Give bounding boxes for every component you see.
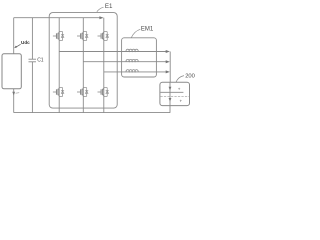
wire: phase leg A vertical (58, 18, 60, 113)
current arrow on positive bus (99, 16, 103, 19)
plate upper (160, 91, 183, 93)
winding LB (126, 59, 138, 61)
wire: negative bus (bottom) (14, 112, 171, 114)
motor enclosure EM1 (122, 38, 157, 77)
svg-text:+: + (180, 99, 183, 104)
wire: source bottom to negative bus (13, 89, 15, 113)
transistor Q1 (top leg A) (53, 32, 64, 41)
leader to label E1 (97, 7, 104, 12)
battery box 200 (160, 82, 190, 105)
wire: phase B output (83, 61, 166, 63)
transistor Q3 (top leg C) (98, 32, 109, 41)
svg-text:E1: E1 (105, 3, 113, 10)
transistor Q2 (top leg B) (77, 32, 88, 41)
svg-text:200: 200 (185, 73, 195, 79)
wire: capacitor branch bottom (31, 62, 33, 113)
inverter enclosure E1 (49, 13, 117, 109)
label Udc (21, 40, 30, 45)
winding LA (126, 49, 138, 51)
wire: capacitor branch top (31, 18, 33, 60)
wire: neutral vertical join (169, 52, 171, 83)
svg-text:C1: C1 (37, 57, 44, 63)
wire: phase leg B vertical (82, 18, 84, 113)
current arrow phase B (166, 60, 170, 63)
svg-text:EM1: EM1 (141, 27, 154, 33)
tick near source bottom wire (16, 92, 20, 95)
leader to label EM1 (131, 29, 140, 37)
transistor Q6 (bottom leg C) (98, 88, 109, 97)
current arrow phase A (166, 50, 170, 53)
capacitor C1 (29, 59, 37, 62)
svg-text:+: + (178, 87, 181, 92)
leader arrow to source top wire (14, 44, 20, 48)
current arrow in box lower (169, 98, 172, 102)
svg-text:Udc: Udc (21, 40, 30, 45)
current arrow in box upper (169, 87, 172, 91)
wire: phase leg C vertical (103, 18, 105, 113)
transistor Q4 (bottom leg A) (53, 88, 64, 97)
transistor Q5 (bottom leg B) (77, 88, 88, 97)
dc source box (2, 54, 21, 89)
wire: positive bus (top) (14, 17, 101, 19)
leader to label 200 (176, 76, 184, 83)
divider (dashed) (160, 95, 189, 97)
wire: through battery box (169, 82, 171, 112)
wire: phase A output (59, 51, 167, 53)
wire: phase C output (104, 71, 167, 73)
winding LC (126, 70, 138, 72)
current arrow on source bottom wire (12, 92, 15, 96)
wire: source top to positive bus (13, 18, 15, 54)
current arrow phase C (166, 70, 170, 73)
